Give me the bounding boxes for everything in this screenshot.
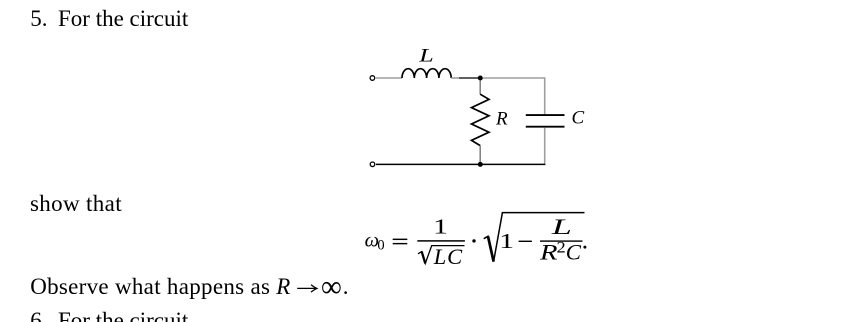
wire (inductor lead dark) <box>459 77 480 79</box>
radical sqrt(LC) <box>418 246 465 264</box>
text: observe line <box>30 275 290 298</box>
text: show that <box>30 192 122 215</box>
wire (resistor bottom stub) <box>479 146 481 162</box>
capacitor C bottom plate <box>526 126 565 128</box>
text: problem 5 heading <box>30 7 47 30</box>
svg-text:C: C <box>566 240 582 265</box>
svg-text:R: R <box>495 109 508 130</box>
terminal (top-left port) <box>370 76 375 81</box>
wire (inductor to junction, light) <box>451 77 459 79</box>
svg-text:L: L <box>550 214 572 239</box>
center dot <box>472 239 475 242</box>
node A (top junction) <box>478 76 483 81</box>
svg-text:1: 1 <box>499 229 514 253</box>
svg-text:0: 0 <box>377 238 384 254</box>
infinity symbol <box>321 275 348 298</box>
svg-text:LC: LC <box>433 244 463 269</box>
svg-text:R: R <box>539 239 558 264</box>
svg-text:C: C <box>572 108 585 129</box>
circuit schematic <box>360 38 620 183</box>
capacitor C top plate <box>526 114 565 116</box>
wire (resistor top stub) <box>479 81 481 95</box>
svg-text:L: L <box>418 46 434 67</box>
terminal (bottom-left port) <box>370 162 375 167</box>
wire (capacitor to bottom wire) <box>544 128 546 164</box>
arrow to infinity <box>296 281 320 295</box>
minus sign <box>519 241 532 242</box>
resistor R <box>472 94 490 145</box>
formula <box>358 202 603 277</box>
equals sign <box>393 239 408 240</box>
wire (bottom horizontal) <box>376 163 545 165</box>
fraction bar 1 <box>417 240 465 242</box>
svg-text:2: 2 <box>557 240 566 257</box>
big radical <box>484 213 585 262</box>
trailing period <box>583 246 586 249</box>
svg-text:1: 1 <box>433 215 448 239</box>
inner fraction bar <box>540 240 583 241</box>
node B (bottom junction) <box>478 162 483 167</box>
wire (junction to top-right corner and down to capacitor) <box>483 78 545 114</box>
wire (top-left horizontal) <box>376 77 402 79</box>
text: problem 6 heading (cut off) <box>30 309 47 322</box>
inductor L <box>402 69 451 78</box>
